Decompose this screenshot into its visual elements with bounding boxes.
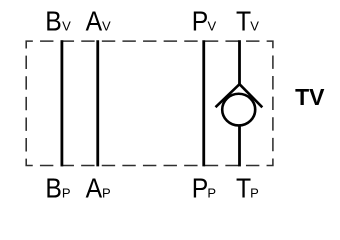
svg-text:T: T — [236, 5, 251, 37]
svg-text:P: P — [62, 186, 71, 201]
svg-text:B: B — [45, 172, 61, 204]
wire port line B (vertical) — [61, 40, 64, 166]
svg-text:T: T — [236, 172, 251, 204]
check valve TV: seat left arm — [216, 84, 240, 107]
svg-text:P: P — [192, 172, 208, 204]
label P_V — [192, 5, 217, 37]
label A_P — [86, 172, 111, 204]
svg-text:A: A — [86, 5, 103, 37]
svg-text:V: V — [102, 19, 111, 34]
label B_P — [45, 172, 70, 204]
wire port line P (vertical) — [202, 40, 205, 166]
svg-text:V: V — [250, 19, 259, 34]
svg-text:A: A — [86, 172, 103, 204]
check valve TV: seat right arm — [240, 84, 263, 107]
svg-text:P: P — [250, 186, 259, 201]
label T_P — [236, 172, 259, 204]
valve subplate boundary (dashed box) — [26, 41, 273, 165]
svg-text:P: P — [102, 186, 111, 201]
label A_V — [86, 5, 111, 37]
svg-text:P: P — [207, 186, 216, 201]
svg-text:B: B — [45, 5, 61, 37]
svg-text:P: P — [192, 5, 208, 37]
wire port line A (vertical) — [96, 40, 99, 166]
label P_P — [192, 172, 216, 204]
svg-text:TV: TV — [295, 84, 325, 110]
check valve TV: ball — [222, 94, 255, 126]
wire port line T lower segment — [238, 125, 241, 166]
label B_V — [45, 5, 71, 37]
svg-text:V: V — [208, 19, 217, 34]
wire port line T upper segment — [238, 40, 241, 85]
svg-text:V: V — [62, 19, 71, 34]
label T_V — [236, 5, 259, 37]
